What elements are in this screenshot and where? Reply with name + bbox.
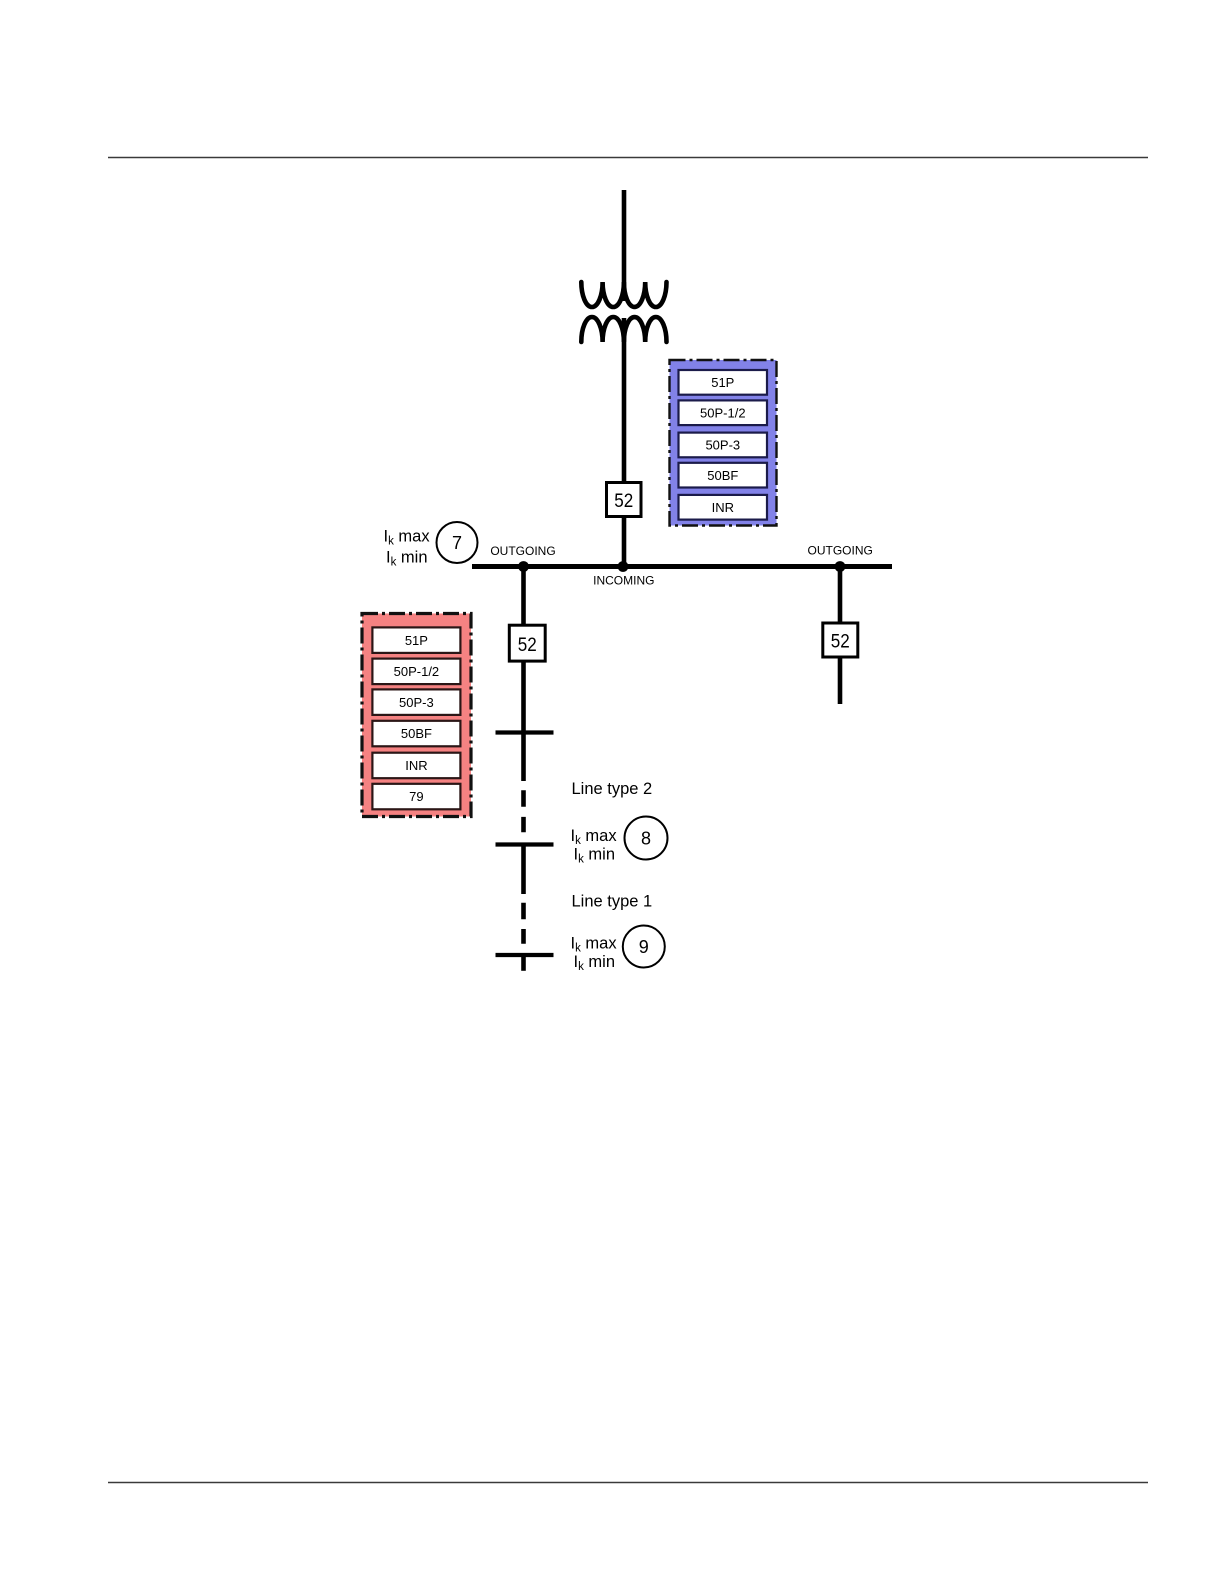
svg-text:51P: 51P (711, 375, 734, 390)
relay 50P-1/2 incoming (679, 400, 768, 425)
svg-text:79: 79 (409, 789, 423, 804)
wire bus to right outgoing breaker (838, 566, 843, 624)
svg-text:50P-3: 50P-3 (705, 438, 740, 453)
relay INR incoming (679, 495, 768, 520)
line tap tick 3 (496, 953, 554, 957)
relay INR outgoing (372, 753, 460, 779)
relay group incoming (blue) (670, 360, 777, 526)
wire incoming breaker to bus (622, 517, 627, 567)
node incoming junction (618, 561, 629, 572)
relay 51P outgoing (372, 627, 460, 653)
breaker 52 incoming (607, 483, 642, 517)
fault marker 8 (625, 817, 668, 860)
wire left breaker to tick 1 (521, 661, 526, 732)
wire solid below tick 2 (521, 845, 526, 895)
breaker 52 outgoing left (509, 625, 545, 661)
relay 79 outgoing (372, 784, 460, 810)
svg-text:52: 52 (831, 632, 850, 653)
relay 50P-1/2 outgoing (372, 659, 460, 685)
svg-text:50BF: 50BF (707, 468, 738, 483)
svg-text:50P-1/2: 50P-1/2 (394, 664, 440, 679)
fault marker 7 (437, 522, 478, 563)
wire bus to left outgoing breaker (521, 566, 526, 626)
svg-text:52: 52 (614, 491, 633, 512)
incoming feeder wire (622, 190, 627, 301)
fault marker 9 (623, 926, 665, 968)
svg-text:INR: INR (405, 758, 427, 773)
svg-text:50BF: 50BF (401, 726, 432, 741)
svg-text:Line type 2: Line type 2 (572, 780, 653, 798)
svg-text:52: 52 (518, 635, 537, 656)
svg-text:8: 8 (641, 829, 651, 849)
wire transformer to incoming breaker (622, 318, 627, 483)
svg-text:Line type 1: Line type 1 (572, 892, 653, 910)
wire solid below tick 1 (521, 733, 526, 782)
relay 50P-3 outgoing (372, 689, 460, 715)
breaker 52 outgoing right (823, 623, 858, 657)
line tap tick 1 (496, 730, 554, 734)
relay group outgoing (red) (362, 614, 471, 817)
relay 50BF outgoing (372, 721, 460, 747)
relay 50P-3 incoming (679, 433, 768, 458)
relay 50BF incoming (679, 463, 768, 488)
svg-text:51P: 51P (405, 633, 428, 648)
svg-text:50P-3: 50P-3 (399, 695, 434, 710)
wire dashed cable line type 1 (521, 903, 526, 944)
wire dashed cable line type 2 (521, 790, 526, 832)
svg-text:7: 7 (452, 533, 462, 553)
svg-text:9: 9 (639, 937, 649, 957)
svg-text:INCOMING: INCOMING (593, 574, 654, 588)
relay 51P incoming (679, 370, 768, 395)
bus (472, 564, 892, 569)
wire stub below tick 3 (521, 955, 526, 971)
wire stub below right breaker (838, 657, 843, 704)
svg-text:50P-1/2: 50P-1/2 (700, 405, 746, 420)
svg-text:INR: INR (712, 500, 734, 515)
node outgoing right junction (835, 561, 846, 572)
transformer T1 primary winding (581, 282, 666, 307)
svg-text:OUTGOING: OUTGOING (808, 544, 873, 558)
line tap tick 2 (496, 842, 554, 846)
svg-text:OUTGOING: OUTGOING (490, 544, 555, 558)
transformer T1 secondary winding (581, 317, 666, 342)
node outgoing left junction (518, 561, 529, 572)
